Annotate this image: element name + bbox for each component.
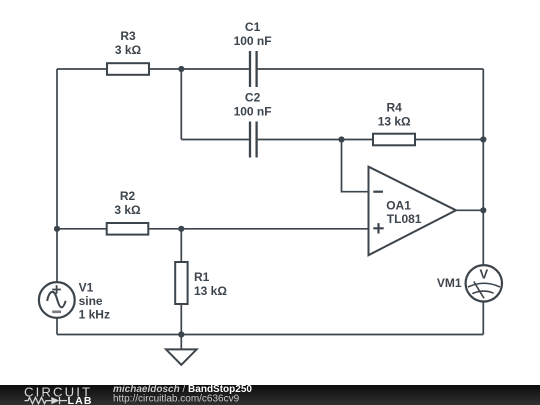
wire C2 row right (C2 right plate to feedback junction and through R4 to right rail) (258, 139, 484, 141)
op-amp OA1 triangle (369, 167, 457, 256)
svg-text:3 kΩ: 3 kΩ (114, 203, 141, 217)
wire C2 row left (mid rail corner to C2 left plate) (181, 139, 249, 141)
svg-text:C1: C1 (245, 20, 261, 34)
resistor R3 body (107, 63, 149, 75)
svg-text:TL081: TL081 (387, 212, 422, 226)
svg-text:3 kΩ: 3 kΩ (115, 43, 142, 57)
svg-text:VM1: VM1 (437, 276, 462, 290)
svg-text:http://circuitlab.com/c636cv9: http://circuitlab.com/c636cv9 (113, 394, 240, 405)
wire op-amp output to right rail (455, 209, 483, 211)
svg-text:V: V (479, 267, 488, 282)
capacitor C1 plates (250, 51, 257, 87)
junction node at C2/R4/minus-input (338, 136, 344, 142)
svg-text:R3: R3 (120, 29, 136, 43)
resistor R2 body (107, 223, 149, 235)
svg-text:100 nF: 100 nF (234, 105, 272, 119)
wire right rail upper (top corner down through R4 node, output node, to VM1 top) (482, 69, 484, 265)
voltage source V1 plus mark (52, 285, 61, 294)
wire R1 bottom stub (180, 304, 182, 335)
wire R2 row (left rail junction through R2 to op-amp plus pin) (57, 228, 370, 230)
svg-text:100 nF: 100 nF (234, 34, 272, 48)
svg-text:13 kΩ: 13 kΩ (378, 114, 411, 128)
wire right rail lower (VM1 bottom to bottom wire) (482, 302, 484, 335)
voltage source V1 sine glyph (47, 292, 65, 307)
svg-text:LAB: LAB (68, 395, 93, 405)
voltmeter VM1 gauge arcs (468, 283, 500, 293)
junction node at R3/C1/mid-rail (178, 66, 184, 72)
voltage source V1 circle (39, 282, 75, 318)
junction node at left rail/R2 (54, 226, 60, 232)
wire left rail lower (V1 minus terminal to bottom wire) (56, 318, 58, 335)
svg-text:1 kHz: 1 kHz (79, 307, 110, 321)
junction node at R1/ground/bottom wire (178, 331, 184, 337)
junction node at output/right rail (480, 207, 486, 213)
svg-text:R4: R4 (387, 100, 403, 114)
ground symbol (166, 349, 197, 364)
junction node at R4/right rail (480, 136, 486, 142)
wire top net: left rail top corner to right rail (through R3, C1) (57, 68, 249, 70)
wire inverting input (feedback junction down and right to op-amp minus pin) (342, 140, 370, 192)
wire mid rail (top-wire junction down to C2 row) (180, 69, 182, 140)
voltmeter VM1 needle (474, 282, 484, 299)
svg-text:sine: sine (79, 294, 103, 308)
resistor R1 body (175, 262, 187, 304)
voltage source V1 minus mark (52, 310, 61, 313)
footer logo resistor zigzag and diode (25, 397, 68, 404)
wire ground stem (180, 335, 182, 350)
wire R1 top stub (180, 229, 182, 262)
voltmeter VM1 circle (466, 265, 502, 301)
op-amp OA1 minus pin symbol (373, 191, 383, 193)
capacitor C2 plates (250, 122, 257, 158)
svg-text:OA1: OA1 (386, 198, 411, 212)
wire left rail upper (top wire down to V1 plus terminal) (56, 69, 58, 282)
wire bottom net (57, 334, 483, 336)
footer bar (0, 385, 540, 405)
resistor R4 body (373, 134, 415, 146)
junction node at R2/R1/plus-input (178, 226, 184, 232)
svg-text:V1: V1 (79, 281, 94, 295)
svg-text:13 kΩ: 13 kΩ (194, 284, 227, 298)
op-amp OA1 plus pin symbol (373, 223, 383, 233)
svg-text:R2: R2 (120, 189, 136, 203)
svg-text:C2: C2 (245, 91, 261, 105)
svg-text:R1: R1 (194, 270, 210, 284)
